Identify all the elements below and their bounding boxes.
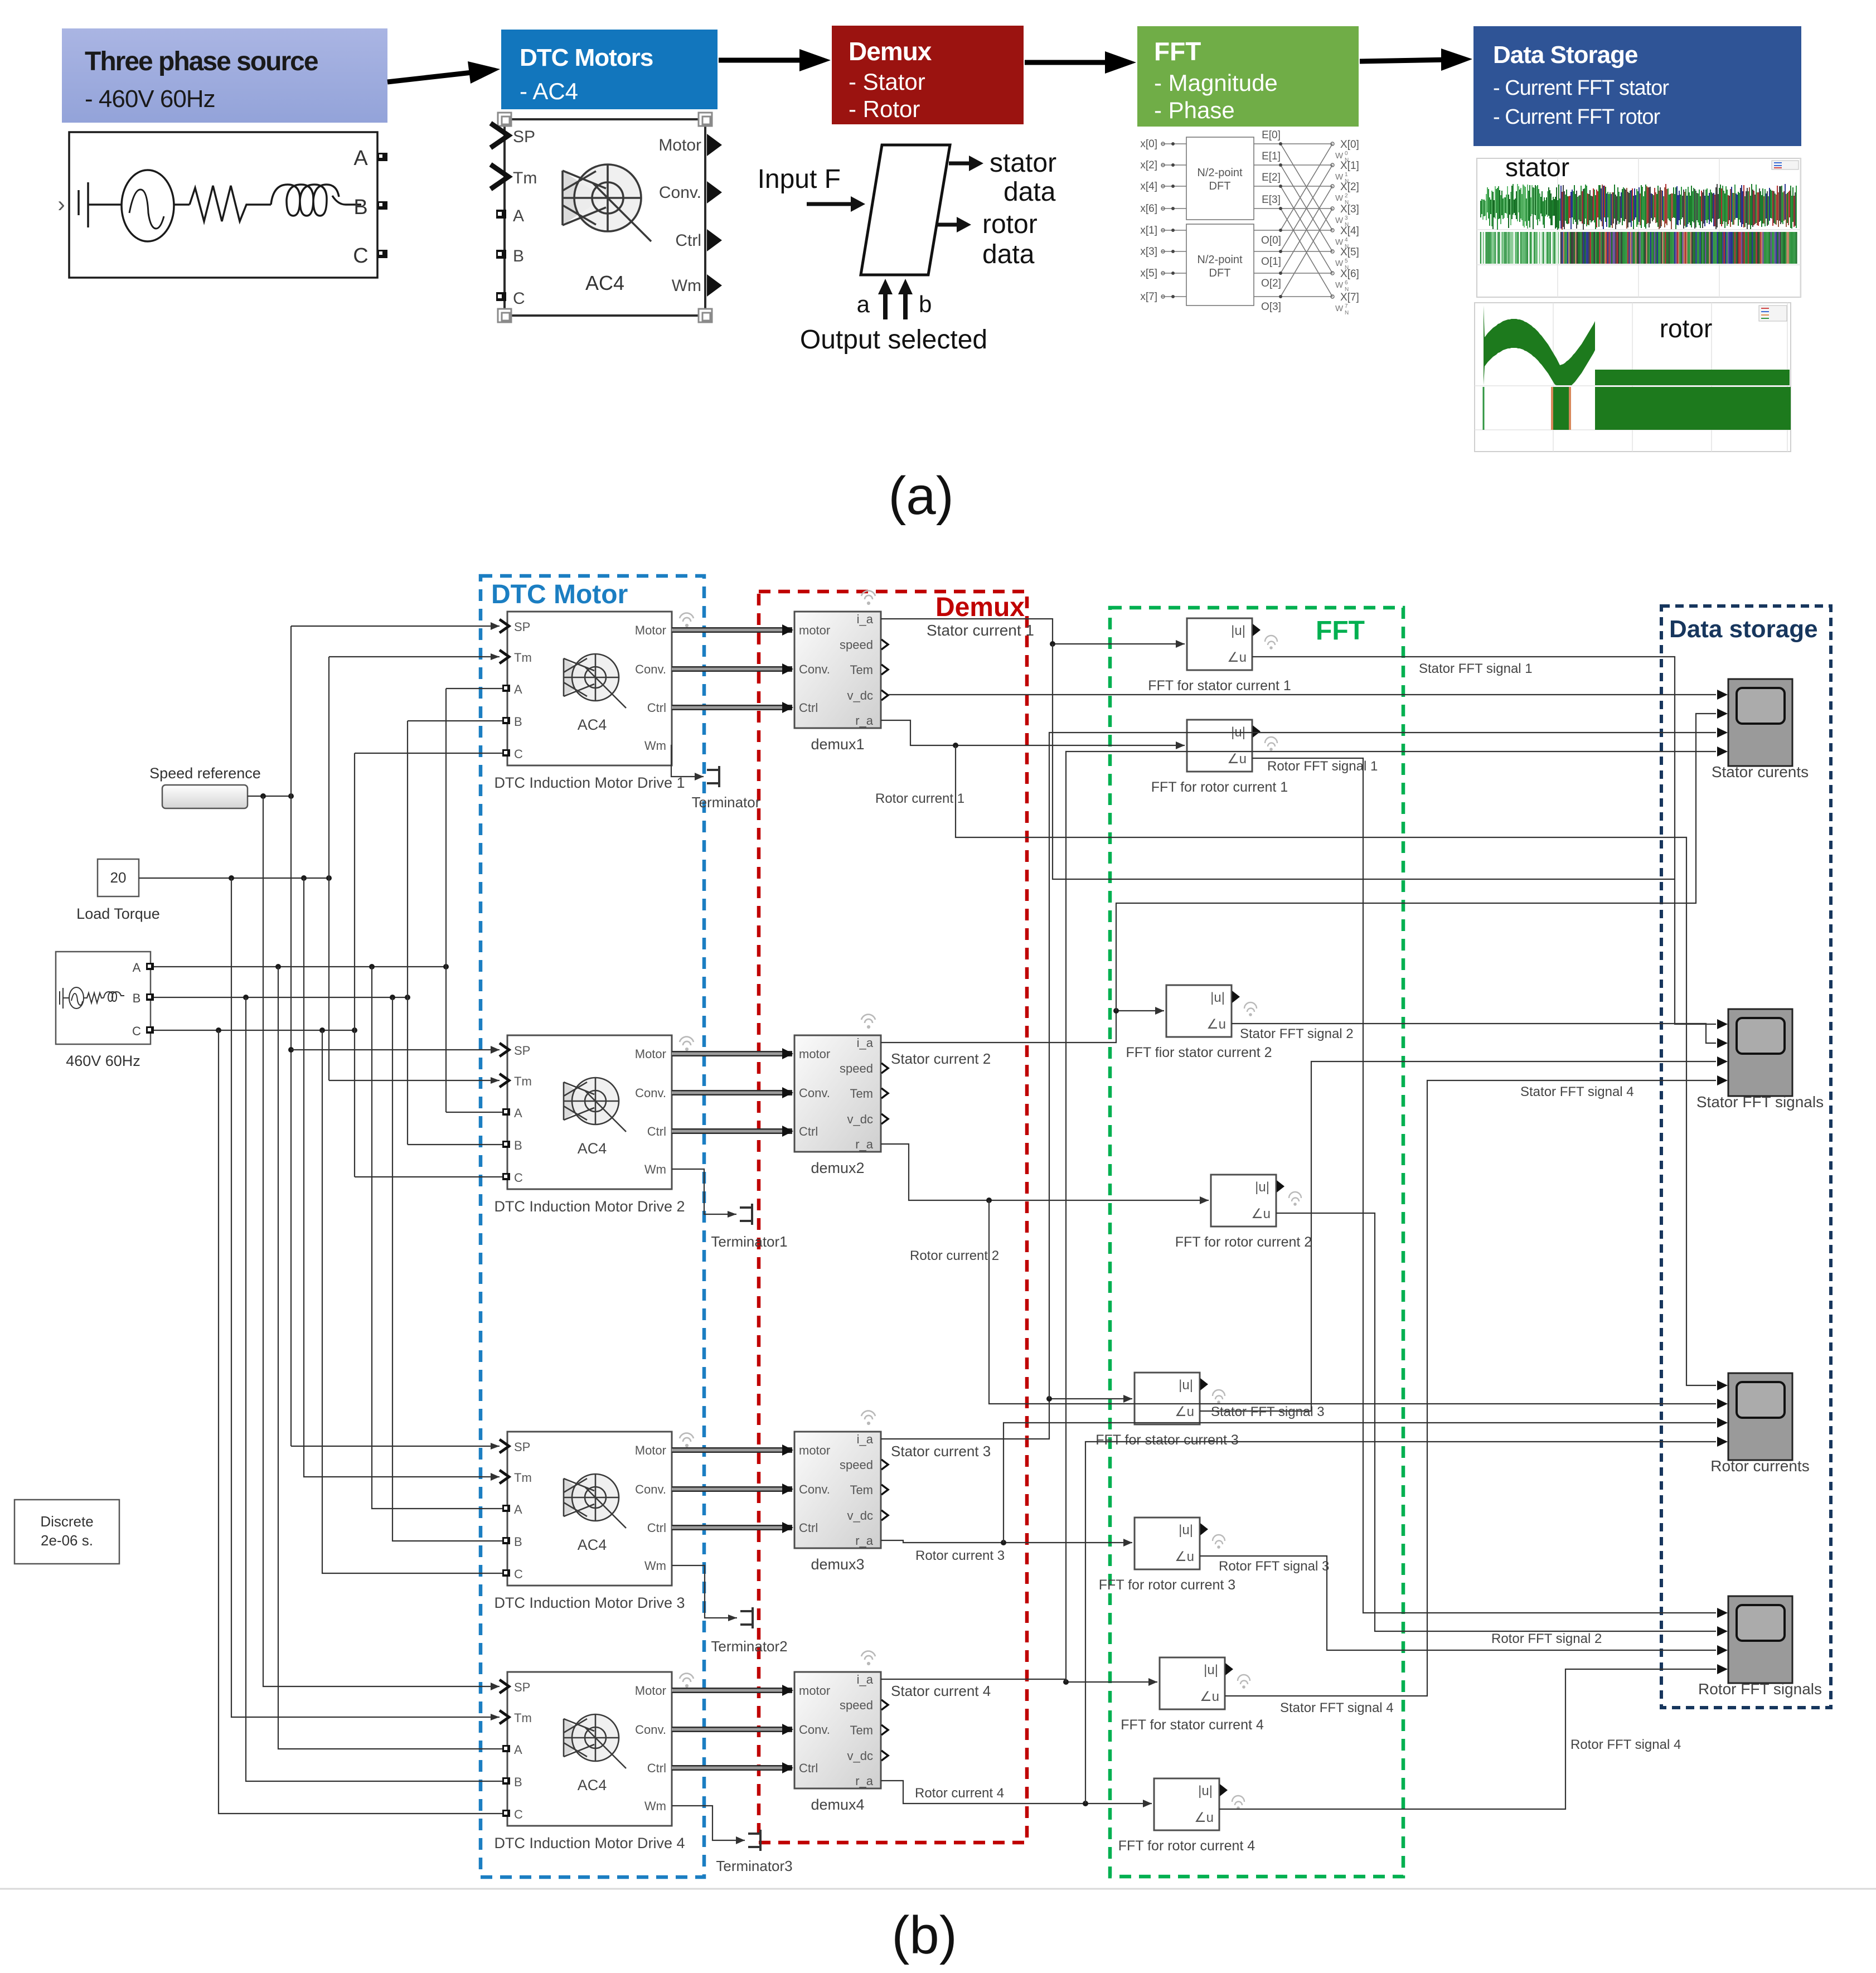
block FFT for rotor current 1 [1187,720,1252,772]
wire rotor current 1 (r_a demux1 -> FFT) [881,720,1185,749]
svg-text:E[3]: E[3] [1262,194,1281,206]
svg-text:W: W [1335,151,1344,161]
block scope Stator FFT signals [1728,1009,1792,1096]
block Terminator1 [740,1204,752,1225]
wire A2 [446,1112,502,1113]
svg-text:C: C [514,1171,523,1185]
svg-text:motor: motor [799,1443,830,1457]
wire A3 [372,967,502,1509]
svg-text:20: 20 [110,869,127,886]
svg-text:∠u: ∠u [1175,1404,1194,1419]
schematic: AC4 DTC motor block (a) [505,119,705,316]
svg-text:SP: SP [514,620,530,634]
svg-text:Terminator1: Terminator1 [711,1233,787,1250]
arrow source->DTC [387,72,477,82]
svg-text:2e-06 s.: 2e-06 s. [41,1532,93,1549]
svg-text:O[1]: O[1] [1261,256,1281,268]
svg-text:Stator FFT signal 4: Stator FFT signal 4 [1520,1084,1634,1099]
svg-text:Conv.: Conv. [799,662,830,676]
svg-text:demux2: demux2 [811,1160,864,1176]
svg-text:speed: speed [840,1698,873,1712]
hose wires drive2->demux2 [672,1051,792,1056]
wire Tm1 [329,653,500,660]
svg-text:FFT fior stator current 2: FFT fior stator current 2 [1126,1045,1272,1060]
svg-text:FFT: FFT [1154,37,1201,66]
wire rotor current 2 -> scope [989,1200,1716,1404]
block Load Torque (20) [98,859,139,896]
wire Stator FFT signal 3 [1200,1061,1716,1411]
svg-text:demux3: demux3 [811,1556,864,1573]
svg-text:r_a: r_a [855,714,874,728]
svg-text:a: a [857,291,870,317]
svg-text:- Current FFT stator: - Current FFT stator [1493,76,1669,100]
svg-text:(a): (a) [888,466,953,526]
svg-text:Ctrl: Ctrl [647,1761,666,1775]
svg-text:Wm: Wm [644,1559,666,1573]
svg-text:Stator FFT signal 1: Stator FFT signal 1 [1419,661,1533,676]
svg-text:X[3]: X[3] [1340,203,1359,215]
svg-text:Tm: Tm [514,651,532,665]
wire Wm drive4 -> Terminator3 [672,1806,745,1844]
hose wires drive1->demux1 [672,627,792,633]
wire stator current 3 (i_a demux3 -> FFT) [881,1395,1132,1439]
svg-text:C: C [514,747,523,761]
wire A4 [278,967,502,1749]
block FFT for stator current 1 [1187,618,1252,670]
svg-text:AC4: AC4 [578,1140,607,1157]
block demux2 [794,1035,881,1152]
svg-text:demux4: demux4 [811,1796,864,1813]
svg-text:DTC Motors: DTC Motors [520,44,653,71]
dashed box DTC Motor [481,576,704,1877]
wire load torque output [139,875,332,881]
svg-text:4: 4 [1345,237,1348,243]
svg-text:Stator FFT signal 3: Stator FFT signal 3 [1211,1404,1325,1419]
svg-text:speed: speed [840,638,873,652]
image: rotor scope screenshot (a) [1475,303,1791,452]
svg-text:Output selected: Output selected [800,325,987,355]
svg-text:∠u: ∠u [1227,752,1247,767]
svg-text:DFT: DFT [1209,180,1231,192]
svg-text:460V 60Hz: 460V 60Hz [66,1053,140,1069]
svg-text:i_a: i_a [857,1036,874,1050]
svg-text:FFT for stator current 1: FFT for stator current 1 [1148,678,1291,694]
wire SP3 [291,1443,500,1450]
svg-text:∠u: ∠u [1200,1689,1219,1704]
svg-text:speed: speed [840,1458,873,1472]
wire C1 [355,753,502,754]
wire stator current 3 -> scope [1049,733,1716,1399]
svg-text:Stator FFT signal 4: Stator FFT signal 4 [1280,1700,1394,1715]
svg-text:Stator FFT signals: Stator FFT signals [1696,1093,1824,1111]
wire Wm drive1 -> Terminator [671,745,704,781]
svg-text:AC4: AC4 [585,272,624,294]
svg-text:B: B [514,1138,522,1152]
block DTC Induction Motor Drive 2 [507,1035,672,1189]
svg-text:B: B [513,247,524,265]
block DTC Induction Motor Drive 1 [507,612,672,765]
svg-text:E[0]: E[0] [1262,129,1281,141]
svg-text:C: C [514,1567,523,1581]
svg-text:Motor: Motor [635,623,666,637]
svg-text:SP: SP [514,1044,530,1058]
dashed box FFT [1110,608,1403,1877]
svg-text:FFT for stator current 3: FFT for stator current 3 [1095,1432,1239,1448]
header block: FFT [1137,26,1359,127]
svg-text:2: 2 [1345,193,1348,199]
svg-text:N/2-point: N/2-point [1197,167,1243,179]
block demux1 [794,612,881,728]
svg-text:Terminator: Terminator [692,794,760,811]
wire stator current 4 -> scope [1066,752,1716,1682]
block Discrete 2e-06 s. [14,1500,119,1564]
svg-text:A: A [353,147,368,170]
svg-text:Terminator2: Terminator2 [711,1638,787,1655]
header block: Three phase source [62,28,387,123]
svg-text:O[0]: O[0] [1261,235,1281,246]
svg-text:6: 6 [1345,280,1348,286]
svg-text:FFT: FFT [1316,616,1365,646]
svg-text:Motor: Motor [635,1684,666,1698]
svg-text:∠u: ∠u [1194,1810,1214,1825]
image: stator scope screenshot (a) [1477,158,1801,297]
svg-text:∠u: ∠u [1227,650,1247,665]
svg-text:N/2-point: N/2-point [1197,254,1243,266]
svg-text:∠u: ∠u [1206,1017,1226,1032]
svg-text:- AC4: - AC4 [520,78,578,104]
dashed box Data storage [1661,606,1831,1708]
wire Rotor FFT signal 2 [1276,1213,1716,1631]
wire B3 [392,997,502,1541]
svg-text:5: 5 [1345,258,1348,264]
wire B4 [246,997,502,1781]
wire B1 [408,720,502,721]
svg-text:- 460V 60Hz: - 460V 60Hz [85,85,215,113]
wire Stator FFT signal 2 [1232,1024,1716,1043]
svg-text:x[6]: x[6] [1140,203,1157,215]
svg-text:SP: SP [514,1680,530,1694]
svg-text:Rotor FFT signal 2: Rotor FFT signal 2 [1491,1631,1602,1646]
svg-text:Ctrl: Ctrl [799,1521,818,1535]
svg-text:Conv.: Conv. [635,1723,666,1737]
svg-text:x[3]: x[3] [1140,246,1157,258]
svg-text:FFT for rotor current 4: FFT for rotor current 4 [1118,1838,1255,1854]
svg-text:motor: motor [799,623,830,637]
svg-text:Stator curents: Stator curents [1712,763,1809,781]
svg-text:Data storage: Data storage [1669,615,1818,643]
svg-text:Three phase source: Three phase source [85,47,318,76]
svg-text:Rotor FFT signals: Rotor FFT signals [1698,1680,1822,1698]
wire rotor current 1 -> scope [956,745,1716,1385]
svg-text:A: A [513,207,524,225]
block Terminator3 [748,1830,760,1851]
svg-text:Demux: Demux [935,593,1025,622]
svg-text:Conv.: Conv. [799,1482,830,1496]
svg-text:C: C [353,244,368,268]
svg-text:- Phase: - Phase [1154,97,1235,123]
svg-text:Conv.: Conv. [799,1723,830,1737]
svg-text:B: B [133,991,141,1005]
svg-text:Load Torque: Load Torque [76,905,160,922]
svg-text:Demux: Demux [849,37,932,66]
wire speed reference output [248,793,294,799]
svg-text:FFT for rotor current 2: FFT for rotor current 2 [1175,1234,1312,1250]
svg-text:X[5]: X[5] [1340,246,1359,258]
wire phase A distribution [154,964,449,969]
svg-text:AC4: AC4 [578,716,607,733]
svg-text:x[0]: x[0] [1140,138,1157,150]
svg-text:N: N [1345,310,1349,316]
svg-text:Terminator3: Terminator3 [716,1858,792,1874]
svg-text:Tm: Tm [514,1711,532,1725]
svg-text:- Stator: - Stator [849,69,925,95]
svg-text:|u|: |u| [1231,623,1245,638]
dashed box Demux [759,592,1027,1843]
wire Tm2 [329,1077,500,1084]
svg-text:Discrete: Discrete [40,1513,93,1530]
svg-text:Stator current 2: Stator current 2 [891,1050,991,1067]
wire trunk Tm a [328,657,329,1080]
wire SP1 [291,622,500,630]
svg-text:SP: SP [513,128,535,146]
svg-text:B: B [514,1775,522,1789]
svg-text:C: C [513,289,525,308]
svg-text:data: data [1004,177,1056,207]
svg-text:W: W [1335,193,1344,203]
svg-text:X[6]: X[6] [1340,268,1359,280]
svg-text:SP: SP [514,1440,530,1454]
svg-text:demux1: demux1 [811,736,864,753]
block 460V 60Hz three-phase source [56,952,151,1044]
svg-text:|u|: |u| [1210,990,1225,1005]
svg-text:motor: motor [799,1684,830,1698]
svg-text:|u|: |u| [1179,1378,1193,1393]
svg-text:|u|: |u| [1204,1662,1218,1678]
svg-text:AC4: AC4 [578,1536,607,1553]
svg-text:O[3]: O[3] [1261,301,1281,313]
svg-text:C: C [514,1807,523,1821]
svg-text:Tem: Tem [850,663,873,677]
svg-text:C: C [132,1024,141,1038]
wire Wm drive2 -> Terminator1 [672,1169,736,1218]
block DTC Induction Motor Drive 4 [507,1672,672,1826]
schematic: three phase source block [69,132,377,278]
svg-text:v_dc: v_dc [847,1112,873,1126]
arrow Demux->FFT [1025,60,1113,65]
svg-text:Tm: Tm [514,1471,532,1485]
svg-text:x[4]: x[4] [1140,181,1157,192]
svg-text:∠u: ∠u [1251,1206,1271,1221]
svg-text:Wm: Wm [644,1799,666,1813]
svg-text:Tem: Tem [850,1483,873,1497]
svg-text:DTC Induction Motor Drive 1: DTC Induction Motor Drive 1 [494,774,685,791]
svg-text:data: data [982,240,1035,269]
wire phase C distribution [154,1027,357,1033]
svg-text:Rotor current 2: Rotor current 2 [910,1248,999,1263]
block scope Rotor currents [1728,1373,1792,1460]
wire trunk SP a [288,626,294,1446]
svg-text:A: A [514,1106,522,1120]
svg-text:|u|: |u| [1179,1523,1193,1538]
wire v_dc demux1 -> scope Stator curents [889,694,1716,695]
wire SP2 [291,1046,500,1054]
svg-text:W: W [1335,237,1344,247]
svg-text:7: 7 [1345,303,1348,309]
svg-text:Motor: Motor [635,1047,666,1061]
block demux4 [794,1672,881,1788]
wire phase B distribution [154,995,410,1000]
wire stator current 2 (i_a demux2 -> FFT) [881,1007,1164,1043]
svg-text:W: W [1335,280,1344,290]
svg-text:B: B [353,196,367,219]
svg-text:∠u: ∠u [1175,1549,1194,1564]
svg-text:DTC Motor: DTC Motor [491,580,628,609]
wire stator current 2 -> scope [1116,714,1716,1011]
arrow FFT->DataStorage [1360,60,1449,61]
svg-text:v_dc: v_dc [847,689,873,702]
svg-text:Wm: Wm [644,739,666,753]
svg-text:Stator current 3: Stator current 3 [891,1443,991,1460]
wire C3 [322,1030,502,1573]
block DTC Induction Motor Drive 3 [507,1432,672,1586]
svg-text:W: W [1335,259,1344,268]
svg-text:v_dc: v_dc [847,1509,873,1523]
svg-text:Ctrl: Ctrl [647,701,666,715]
svg-text:rotor: rotor [982,210,1038,239]
svg-text:X[7]: X[7] [1340,292,1359,303]
block scope Stator curents [1728,679,1792,766]
svg-text:E[1]: E[1] [1262,151,1281,162]
wire A1 [446,688,502,689]
wire stator current 4 (i_a demux4 -> FFT) [881,1678,1157,1686]
svg-text:r_a: r_a [855,1774,874,1788]
svg-text:Tem: Tem [850,1087,873,1101]
svg-text:r_a: r_a [855,1534,874,1548]
svg-text:DFT: DFT [1209,267,1231,279]
wire Rotor FFT signal 4 [1219,1669,1716,1809]
block FFT for rotor current 4 [1154,1778,1219,1830]
svg-text:Tm: Tm [514,1074,532,1088]
svg-text:X[2]: X[2] [1340,181,1359,193]
separator line [0,1888,1876,1890]
svg-text:Ctrl: Ctrl [647,1521,666,1535]
svg-text:›: › [57,192,65,217]
svg-text:A: A [133,961,141,975]
wire rotor current 2 (r_a demux2 -> FFT) [881,1144,1209,1204]
svg-text:0: 0 [1345,151,1348,157]
wire Tm4 [231,878,500,1720]
svg-text:Wm: Wm [644,1162,666,1176]
wire Rotor FFT signal 3 [1200,1556,1716,1650]
arrow DTC->Demux [719,58,807,63]
svg-text:DTC Induction Motor Drive 4: DTC Induction Motor Drive 4 [494,1835,685,1851]
svg-text:Speed reference: Speed reference [149,765,261,782]
block FFT for rotor current 2 [1211,1175,1276,1227]
svg-text:Ctrl: Ctrl [799,701,818,715]
svg-text:|u|: |u| [1198,1783,1213,1799]
svg-text:Ctrl: Ctrl [675,231,701,250]
svg-text:- Rotor: - Rotor [849,96,920,122]
svg-text:(b): (b) [891,1906,957,1965]
svg-text:B: B [514,1535,522,1549]
wire rotor current 3 (r_a demux3 -> FFT) [881,1539,1132,1547]
block Terminator [707,766,719,787]
svg-text:x[1]: x[1] [1140,225,1157,236]
wire rotor current 4 (r_a demux4 -> FFT) [881,1781,1152,1807]
svg-text:- Current FFT rotor: - Current FFT rotor [1493,105,1660,129]
svg-text:Motor: Motor [658,136,701,154]
wire SP4 [263,796,500,1690]
svg-text:|u|: |u| [1255,1180,1269,1195]
svg-text:O[2]: O[2] [1261,278,1281,289]
svg-text:Ctrl: Ctrl [799,1124,818,1138]
svg-text:r_a: r_a [855,1137,874,1151]
wire Wm drive3 -> Terminator2 [672,1565,737,1621]
svg-text:Stator current 1: Stator current 1 [927,622,1034,639]
wire rotor current 4 -> scope [1085,1442,1716,1804]
svg-text:E[2]: E[2] [1262,172,1281,183]
block scope Rotor FFT signals [1728,1596,1792,1683]
svg-text:FFT for stator current 4: FFT for stator current 4 [1121,1717,1264,1733]
wire B2 [408,1144,502,1145]
wire stator current 1 (i_a demux1 -> FFT) [881,619,1185,648]
header block: Data Storage [1473,26,1801,146]
wire trunk B [407,721,408,1145]
svg-text:Ctrl: Ctrl [799,1761,818,1775]
svg-text:DTC Induction Motor Drive 3: DTC Induction Motor Drive 3 [494,1594,685,1611]
svg-text:rotor: rotor [1660,314,1713,343]
hose wires drive4->demux4 [672,1688,792,1693]
svg-text:stator: stator [990,148,1056,178]
wire Tm3 [304,878,500,1481]
svg-text:Rotor FFT signal 1: Rotor FFT signal 1 [1267,759,1378,774]
svg-text:i_a: i_a [857,612,874,626]
wire rotor current 3 -> scope [1004,1423,1716,1543]
svg-text:A: A [514,1502,522,1516]
svg-text:3: 3 [1345,215,1348,221]
wire Stator FFT signal 1 [1252,657,1716,1024]
block FFT for rotor current 3 [1135,1518,1200,1569]
svg-text:i_a: i_a [857,1432,874,1446]
svg-text:FFT for rotor current 1: FFT for rotor current 1 [1151,779,1288,795]
svg-text:i_a: i_a [857,1673,874,1686]
svg-text:Motor: Motor [635,1443,666,1457]
svg-text:A: A [514,682,522,696]
block FFT for stator current 4 [1160,1657,1225,1709]
svg-text:A: A [514,1743,522,1757]
header block: Demux [832,26,1024,124]
svg-text:W: W [1335,304,1344,313]
svg-text:Tm: Tm [513,169,537,187]
schematic: FFT butterfly diagram (a) [1161,137,1254,306]
svg-text:x[5]: x[5] [1140,268,1157,279]
svg-text:X[4]: X[4] [1340,225,1359,237]
svg-text:Data Storage: Data Storage [1493,41,1637,69]
block FFT fior stator current 2 [1166,985,1232,1037]
block FFT for stator current 3 [1135,1373,1200,1424]
svg-text:1: 1 [1345,172,1348,178]
svg-text:Conv.: Conv. [635,1482,666,1496]
svg-text:FFT for rotor current 3: FFT for rotor current 3 [1099,1577,1235,1593]
svg-text:b: b [919,291,932,317]
svg-text:Wm: Wm [672,277,701,295]
wire Stator FFT signal 4 [1225,1080,1716,1696]
svg-text:motor: motor [799,1047,830,1061]
svg-text:Rotor FFT signal 3: Rotor FFT signal 3 [1219,1559,1329,1574]
svg-text:DTC Induction Motor Drive 2: DTC Induction Motor Drive 2 [494,1198,685,1215]
svg-text:Rotor current 4: Rotor current 4 [915,1786,1004,1801]
svg-text:Ctrl: Ctrl [647,1124,666,1138]
